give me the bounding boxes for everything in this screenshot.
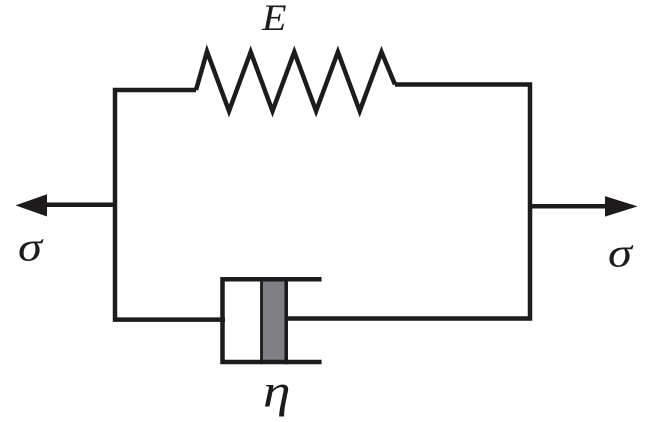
svg-text:E: E [261,0,287,39]
svg-text:η: η [263,366,291,418]
svg-text:σ: σ [608,230,634,276]
svg-text:σ: σ [18,224,44,270]
